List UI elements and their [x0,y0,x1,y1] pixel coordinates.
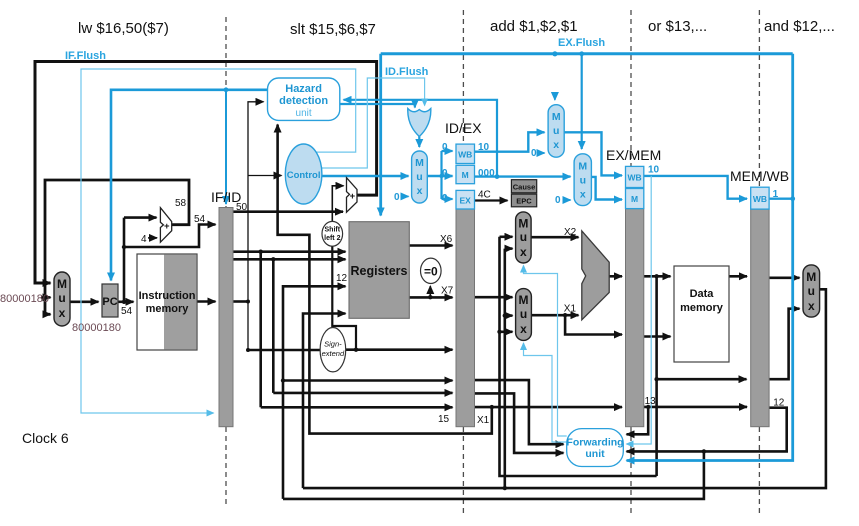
wb zero mux [548,105,564,158]
stage separator dashed line 3 [630,10,632,514]
svg-text:M: M [631,194,638,204]
label 4C [478,190,491,201]
wire: sign-extend output to ID/EX [346,348,453,352]
svg-text:13: 13 [645,396,657,407]
label X1 at ID/EX bottom [477,415,490,426]
svg-text:unit: unit [585,448,605,460]
wire: instruction vertical to hazard unit [248,102,264,350]
wire: EX/MEM to data memory address [644,275,671,278]
wire: instruction memory to IF/ID [197,300,216,303]
svg-text:M: M [806,270,816,284]
wire: write data riser to Registers [303,314,346,489]
wire: 80000180 into PC mux [41,296,51,299]
svg-text:0: 0 [442,168,448,179]
svg-text:Forwarding: Forwarding [566,437,623,449]
wire: Control to ID stage mux [321,175,409,177]
wire: EX.Flush select to WB zero mux [552,51,557,100]
label EX/MEM [606,147,661,163]
wire: write-back data bottom bus [303,289,826,490]
svg-text:Registers: Registers [351,264,408,278]
svg-text:x: x [808,299,815,313]
instruction memory [137,254,197,350]
pipeline register IF/ID [219,208,233,427]
svg-text:Cause: Cause [513,182,536,191]
svg-text:0: 0 [442,142,448,153]
svg-text:X7: X7 [441,286,454,297]
svg-text:10: 10 [648,165,660,176]
svg-text:M: M [552,111,561,123]
svg-text:Data: Data [690,288,715,300]
wire: M mux output to EX/MEM [591,177,622,200]
svg-text:EX.Flush: EX.Flush [558,37,605,49]
wire: read register 2 [233,258,346,261]
wire: instruction to Control [248,175,282,177]
svg-text:WB: WB [458,150,472,160]
label ID.Flush [385,66,429,78]
svg-text:extend: extend [322,349,345,358]
svg-text:WB: WB [628,173,642,183]
wire: rs number down to ID/EX [259,250,453,408]
alu [582,231,609,320]
wire: registers read data 1 X6 [409,244,453,247]
svg-text:M: M [57,277,67,291]
svg-text:M: M [415,157,424,169]
svg-text:0: 0 [442,193,448,204]
or gate [408,109,431,137]
wire: hazard stall to OR gate [340,104,415,108]
wire: zero into WB mux [538,152,545,154]
svg-text:54: 54 [194,214,206,225]
m zero mux [574,154,591,206]
label X1 at mux B [564,304,577,315]
svg-text:4C: 4C [478,190,491,201]
svg-text:58: 58 [175,198,187,209]
svg-text:M: M [519,293,529,307]
node: junction PC column [122,245,126,304]
wire: MEM/WB WB value 1 out [769,197,793,199]
label 0 at ID mux [394,192,400,203]
wire: read register 1 [233,250,346,253]
wire: ID/EX MemRead tap to hazard unit [344,100,498,177]
svg-text:80000180: 80000180 [0,293,49,305]
svg-text:u: u [808,284,815,298]
instruction label slt [290,21,376,38]
svg-text:x: x [520,322,527,336]
cause register [511,180,536,193]
svg-text:WB: WB [753,194,767,204]
label 15 at ID/EX bottom [438,414,450,425]
wire: PC+4 (58) loop to PC mux [45,180,189,314]
label 12 write register [336,273,348,284]
wire: WB mux output to EX/MEM [564,132,622,175]
label IF.Flush [65,50,106,62]
wire: IF/ID instruction bus stub [233,300,248,303]
svg-text:10: 10 [478,142,490,153]
svg-text:u: u [58,291,65,305]
svg-text:12: 12 [773,398,785,409]
labels 0 at ID/EX control inputs [442,142,448,204]
svg-text:lw $16,50($7): lw $16,50($7) [78,20,169,37]
stage separator dashed line 1 [225,17,227,508]
svg-text:EPC: EPC [516,197,532,206]
instruction label lw [78,20,169,37]
label 13 [645,396,657,407]
wire: IF/ID 50 to branch adder2 [233,210,343,213]
label 54 near IF/ID [194,214,206,225]
label ID/EX [445,120,482,136]
svg-text:12: 12 [336,273,348,284]
svg-text:u: u [580,175,586,187]
svg-text:Shift: Shift [325,227,341,234]
label 54 right of PC [121,306,133,317]
stage separator dashed line 4 [758,10,760,514]
svg-text:unit: unit [296,108,312,119]
svg-text:50: 50 [236,202,248,213]
svg-text:+: + [164,221,170,232]
wire: ID/EX WB 10 to zero mux [475,132,545,151]
svg-text:Hazard: Hazard [285,83,322,95]
svg-text:x: x [59,306,66,320]
label 000 at ID/EX M [478,168,495,179]
svg-text:u: u [416,171,422,183]
wire: rd 13 into EX/MEM [475,405,623,409]
svg-text:u: u [520,307,527,321]
label 80000180 left [0,293,49,305]
svg-text:000: 000 [478,168,495,179]
svg-text:M: M [518,217,528,231]
label MEM/WB [730,168,789,184]
wire: zero into M mux [564,199,571,201]
label 50 [236,202,248,213]
adder branch [347,178,358,213]
svg-text:M: M [462,170,469,180]
sign extend oval [320,328,346,372]
ID/EX EX field [456,190,475,209]
MEM/WB WB field [751,187,769,209]
svg-text:0: 0 [555,195,561,206]
wire: EX/MEM RegWrite thin to forwarding [627,176,652,444]
wire: instruction to sign-extend [248,349,321,352]
svg-text:Instruction: Instruction [139,290,196,302]
label 80000180 below PC [72,322,121,334]
clock label [22,430,69,446]
label EX.Flush [558,37,605,49]
equals zero oval [421,258,442,283]
svg-text:MEM/WB: MEM/WB [730,168,789,184]
wire: ID/EX X7 value to ALU mux B [475,296,513,299]
wire: MEM/WB 12 to forwarding unit [627,408,787,452]
label 58 [175,198,187,209]
svg-text:Clock 6: Clock 6 [22,430,69,446]
wire: ID.Flush thin to OR gate [321,78,425,168]
wire: EX.Flush select to M zero mux [579,51,584,149]
wire: rt number down to ID/EX [271,257,452,393]
shift left 2 oval [322,221,343,246]
wire: registers read data 2 X7 [409,286,453,299]
wire: rt to forwarding unit [475,393,564,453]
svg-text:memory: memory [146,303,190,315]
wire: EX/MEM ALU result vertical and into MEM/WB [654,274,746,476]
svg-text:54: 54 [121,306,133,317]
wire: ALU mux B output X1 [531,313,622,335]
svg-text:Sign-: Sign- [324,340,342,349]
label 10 at ID/EX WB [478,142,490,153]
svg-text:memory: memory [680,302,724,314]
wire: MEM/WB ALU result to final mux [769,309,799,380]
wire: zero into ID stage mux [402,195,409,197]
svg-text:detection: detection [279,95,328,107]
wire: EX/MEM to data memory write data [644,335,671,338]
svg-text:x: x [520,245,527,259]
wire: forwarding select to ALU mux A [524,266,567,437]
label X6 [440,234,453,245]
forwarding unit [566,429,623,467]
svg-text:add $1,$2,$1: add $1,$2,$1 [490,18,578,35]
wire: IF.Flush thin loop to IF/ID [81,69,356,413]
svg-text:4: 4 [141,234,147,245]
svg-text:IF.Flush: IF.Flush [65,50,106,62]
svg-text:PC: PC [102,296,117,308]
svg-text:u: u [553,125,559,137]
svg-text:15: 15 [438,414,450,425]
pipeline register MEM/WB [751,209,769,427]
svg-text:Control: Control [287,170,321,181]
svg-text:X6: X6 [440,234,453,245]
wire: X1 bus up to hazard unit [278,125,492,434]
hazard detection unit [268,78,340,120]
svg-text:80000180: 80000180 [72,322,121,334]
wire: branch-target loop (adder2 out, around top, to PC mux) [35,62,377,284]
wire: EX/MEM WB 10 to MEM/WB [644,176,747,199]
wire: shift-left-2 output to adder2 [332,186,343,222]
label 0 at m mux [555,195,561,206]
wire: MEM/WB read data to final mux [769,276,799,279]
svg-text:x: x [417,185,423,197]
wire: OR gate output to ID mux [418,136,420,147]
wire: right side blue loop to forwarding unit [627,54,796,461]
pipeline register ID/EX [456,209,475,427]
pipeline register EX/MEM [626,209,644,427]
alu mux A [516,212,532,263]
svg-text:EX: EX [460,195,472,205]
wire: forwarding select to ALU mux B [524,343,567,442]
wire: PC value column to adder1 [124,218,157,302]
svg-text:and $12,...: and $12,... [764,18,835,35]
adder PC+4 [160,208,171,243]
ID/EX M field [456,165,475,183]
svg-text:left 2: left 2 [324,235,340,242]
wire: PC mux to PC [70,300,99,303]
label 0 at wb mux [531,148,537,159]
data memory [674,266,729,362]
svg-text:1: 1 [773,189,779,200]
wire: EX.Flush main line [381,52,793,55]
wire: constant 4 into adder1 [148,237,157,239]
label X2 [564,227,577,238]
svg-text:+: + [350,191,356,202]
label 1 at MEM/WB [773,189,779,200]
svg-text:X2: X2 [564,227,577,238]
wire: PC+4 54 into IF/ID [124,225,216,248]
wire: 13 bus EX/MEM to MEM/WB [627,405,748,435]
label 12 right of MEM/WB [773,398,785,409]
alu mux B [516,289,532,341]
pc source mux [54,272,70,326]
epc register [511,194,536,207]
control unit [285,144,322,204]
svg-text:X1: X1 [477,415,490,426]
id stage flush mux [412,151,428,203]
wire: PC to instruction memory [118,300,134,303]
wire: hazard unit to PC write and IF/ID write [111,87,268,280]
wire: EX/MEM forward bus and riser [497,237,656,476]
svg-text:ID.Flush: ID.Flush [385,66,429,78]
wire: EX field 4C to EPC [475,199,508,201]
wire: shift-left-2 input [332,245,356,350]
instruction label add [490,18,578,35]
label 4 [141,234,147,245]
svg-text:=0: =0 [424,265,438,279]
instruction label or [648,18,707,35]
wire: WB forward riser to ALU muxes [503,249,513,489]
wire: ALU result into EX/MEM [609,275,622,278]
svg-text:x: x [580,189,586,201]
label X7 [441,286,454,297]
wire: data memory read data to MEM/WB [729,275,747,278]
svg-text:M: M [578,161,587,173]
register PC [102,284,118,317]
ID/EX WB field [456,144,475,163]
label IF/ID [211,189,241,205]
wire: EX.Flush down to Registers [379,54,382,216]
svg-text:or $13,...: or $13,... [648,18,707,35]
wire: ID mux output to ID/EX WB M EX [427,151,452,199]
wire: ALU mux A output X2 [531,236,578,239]
node: instruction bus junctions [246,300,250,353]
svg-text:x: x [553,139,559,151]
svg-text:ID/EX: ID/EX [445,120,482,136]
wire: write register number riser and rd bus [281,286,453,499]
svg-text:0: 0 [394,192,400,203]
wire: bottom bus write register number [283,449,706,499]
label 10 at EX/MEM [648,165,660,176]
registers [349,222,409,319]
instruction label and [764,18,835,35]
svg-text:u: u [520,230,527,244]
stage separator dashed line 2 [462,10,464,514]
EX/MEM M field [626,189,644,209]
EX/MEM WB field [626,166,644,187]
final writeback mux [803,265,820,317]
wire: ID/EX M 000 to zero mux [475,174,571,179]
svg-text:EX/MEM: EX/MEM [606,147,661,163]
svg-text:X1: X1 [564,304,577,315]
wire: rs to forwarding unit [475,380,564,444]
svg-text:slt $15,$6,$7: slt $15,$6,$7 [290,21,376,38]
svg-text:0: 0 [531,148,537,159]
